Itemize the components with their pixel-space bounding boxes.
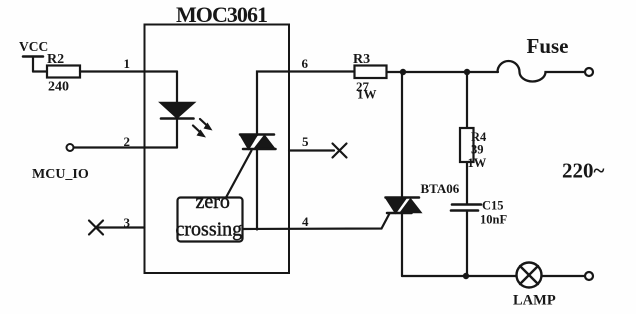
wire triac anode: [401, 72, 403, 197]
power VCC symbol: [19, 39, 48, 72]
LED D1 cathode lead: [176, 119, 178, 148]
terminal MCU_IO: [67, 144, 74, 151]
wire pin 3: [97, 226, 145, 228]
internal photo-triac bottom bar: [243, 148, 276, 151]
internal photo-triac left triangle: [240, 135, 258, 150]
resistor R4: [460, 128, 487, 170]
svg-text:LAMP: LAMP: [513, 293, 556, 309]
wire R4 to C15: [466, 162, 468, 204]
resistor R3: [353, 52, 387, 102]
LED emission arrow 2: [193, 126, 206, 138]
svg-text:5: 5: [302, 134, 309, 149]
svg-text:1W: 1W: [468, 156, 487, 170]
svg-text:240: 240: [48, 80, 69, 95]
resistor R2: [47, 52, 80, 95]
wire gate to zero crossing block: [226, 151, 252, 198]
unconnected cross pin 5: [333, 144, 347, 158]
LED D1 cathode bar: [161, 117, 194, 120]
unconnected cross pin 3: [89, 221, 103, 235]
junction node at triac top: [400, 69, 406, 75]
triac Q1 top bar: [386, 196, 420, 199]
triac Q1 bottom bar: [387, 212, 412, 215]
svg-text:1W: 1W: [357, 87, 377, 102]
svg-text:10nF: 10nF: [480, 213, 507, 227]
svg-text:VCC: VCC: [19, 39, 48, 54]
svg-text:MCU_IO: MCU_IO: [32, 167, 89, 182]
svg-text:BTA06: BTA06: [421, 181, 460, 196]
op-amp U1 MOC3061 box: [145, 25, 290, 274]
svg-text:3: 3: [124, 215, 131, 230]
LED emission arrow 1: [200, 119, 213, 131]
junction node at R4 top: [464, 69, 470, 75]
svg-text:R3: R3: [353, 52, 370, 67]
svg-text:6: 6: [302, 56, 309, 71]
wire pin 5: [289, 149, 334, 151]
wire R2 to LED anode (pin 1): [80, 70, 177, 72]
svg-text:C15: C15: [482, 199, 504, 213]
wire C15 to bottom rail: [466, 211, 468, 277]
terminal line bottom right: [585, 272, 593, 280]
wire bottom rail: [402, 275, 516, 277]
wire LED cathode to MCU_IO terminal (pin 2): [74, 146, 177, 148]
wire triac cathode: [401, 213, 403, 276]
svg-text:1: 1: [124, 56, 131, 71]
wire R3 to fuse: [387, 71, 499, 73]
lamp LA1: [517, 263, 542, 288]
svg-text:4: 4: [302, 214, 309, 229]
svg-text:zero: zero: [196, 191, 230, 213]
capacitor C15: [451, 199, 507, 227]
triac Q1 left triangle: [386, 198, 407, 214]
svg-text:crossing: crossing: [176, 219, 243, 241]
wire top to R4: [466, 72, 468, 128]
wire lamp to terminal: [543, 275, 586, 277]
terminal line top right: [585, 68, 593, 76]
svg-text:Fuse: Fuse: [527, 34, 569, 58]
zero crossing block: [176, 191, 243, 242]
svg-text:R2: R2: [47, 52, 64, 67]
internal photo-triac lower lead: [256, 150, 258, 230]
internal photo-triac right triangle: [255, 136, 275, 149]
internal photo-triac top bar: [240, 133, 274, 136]
junction node at C15 bottom: [463, 273, 469, 279]
svg-text:2: 2: [124, 134, 131, 149]
wire VCC to R2: [33, 70, 47, 72]
wire pin 6 from internal triac to R3: [257, 72, 355, 136]
svg-text:220~: 220~: [562, 159, 605, 183]
LED D1 anode lead: [176, 72, 178, 104]
LED D1 triangle: [160, 103, 195, 119]
fuse F1: [498, 61, 586, 81]
triac Q1 right triangle: [401, 199, 422, 213]
svg-text:MOC3061: MOC3061: [176, 2, 268, 27]
svg-text:39: 39: [471, 143, 484, 157]
wire pin 4 to triac gate: [243, 214, 390, 230]
